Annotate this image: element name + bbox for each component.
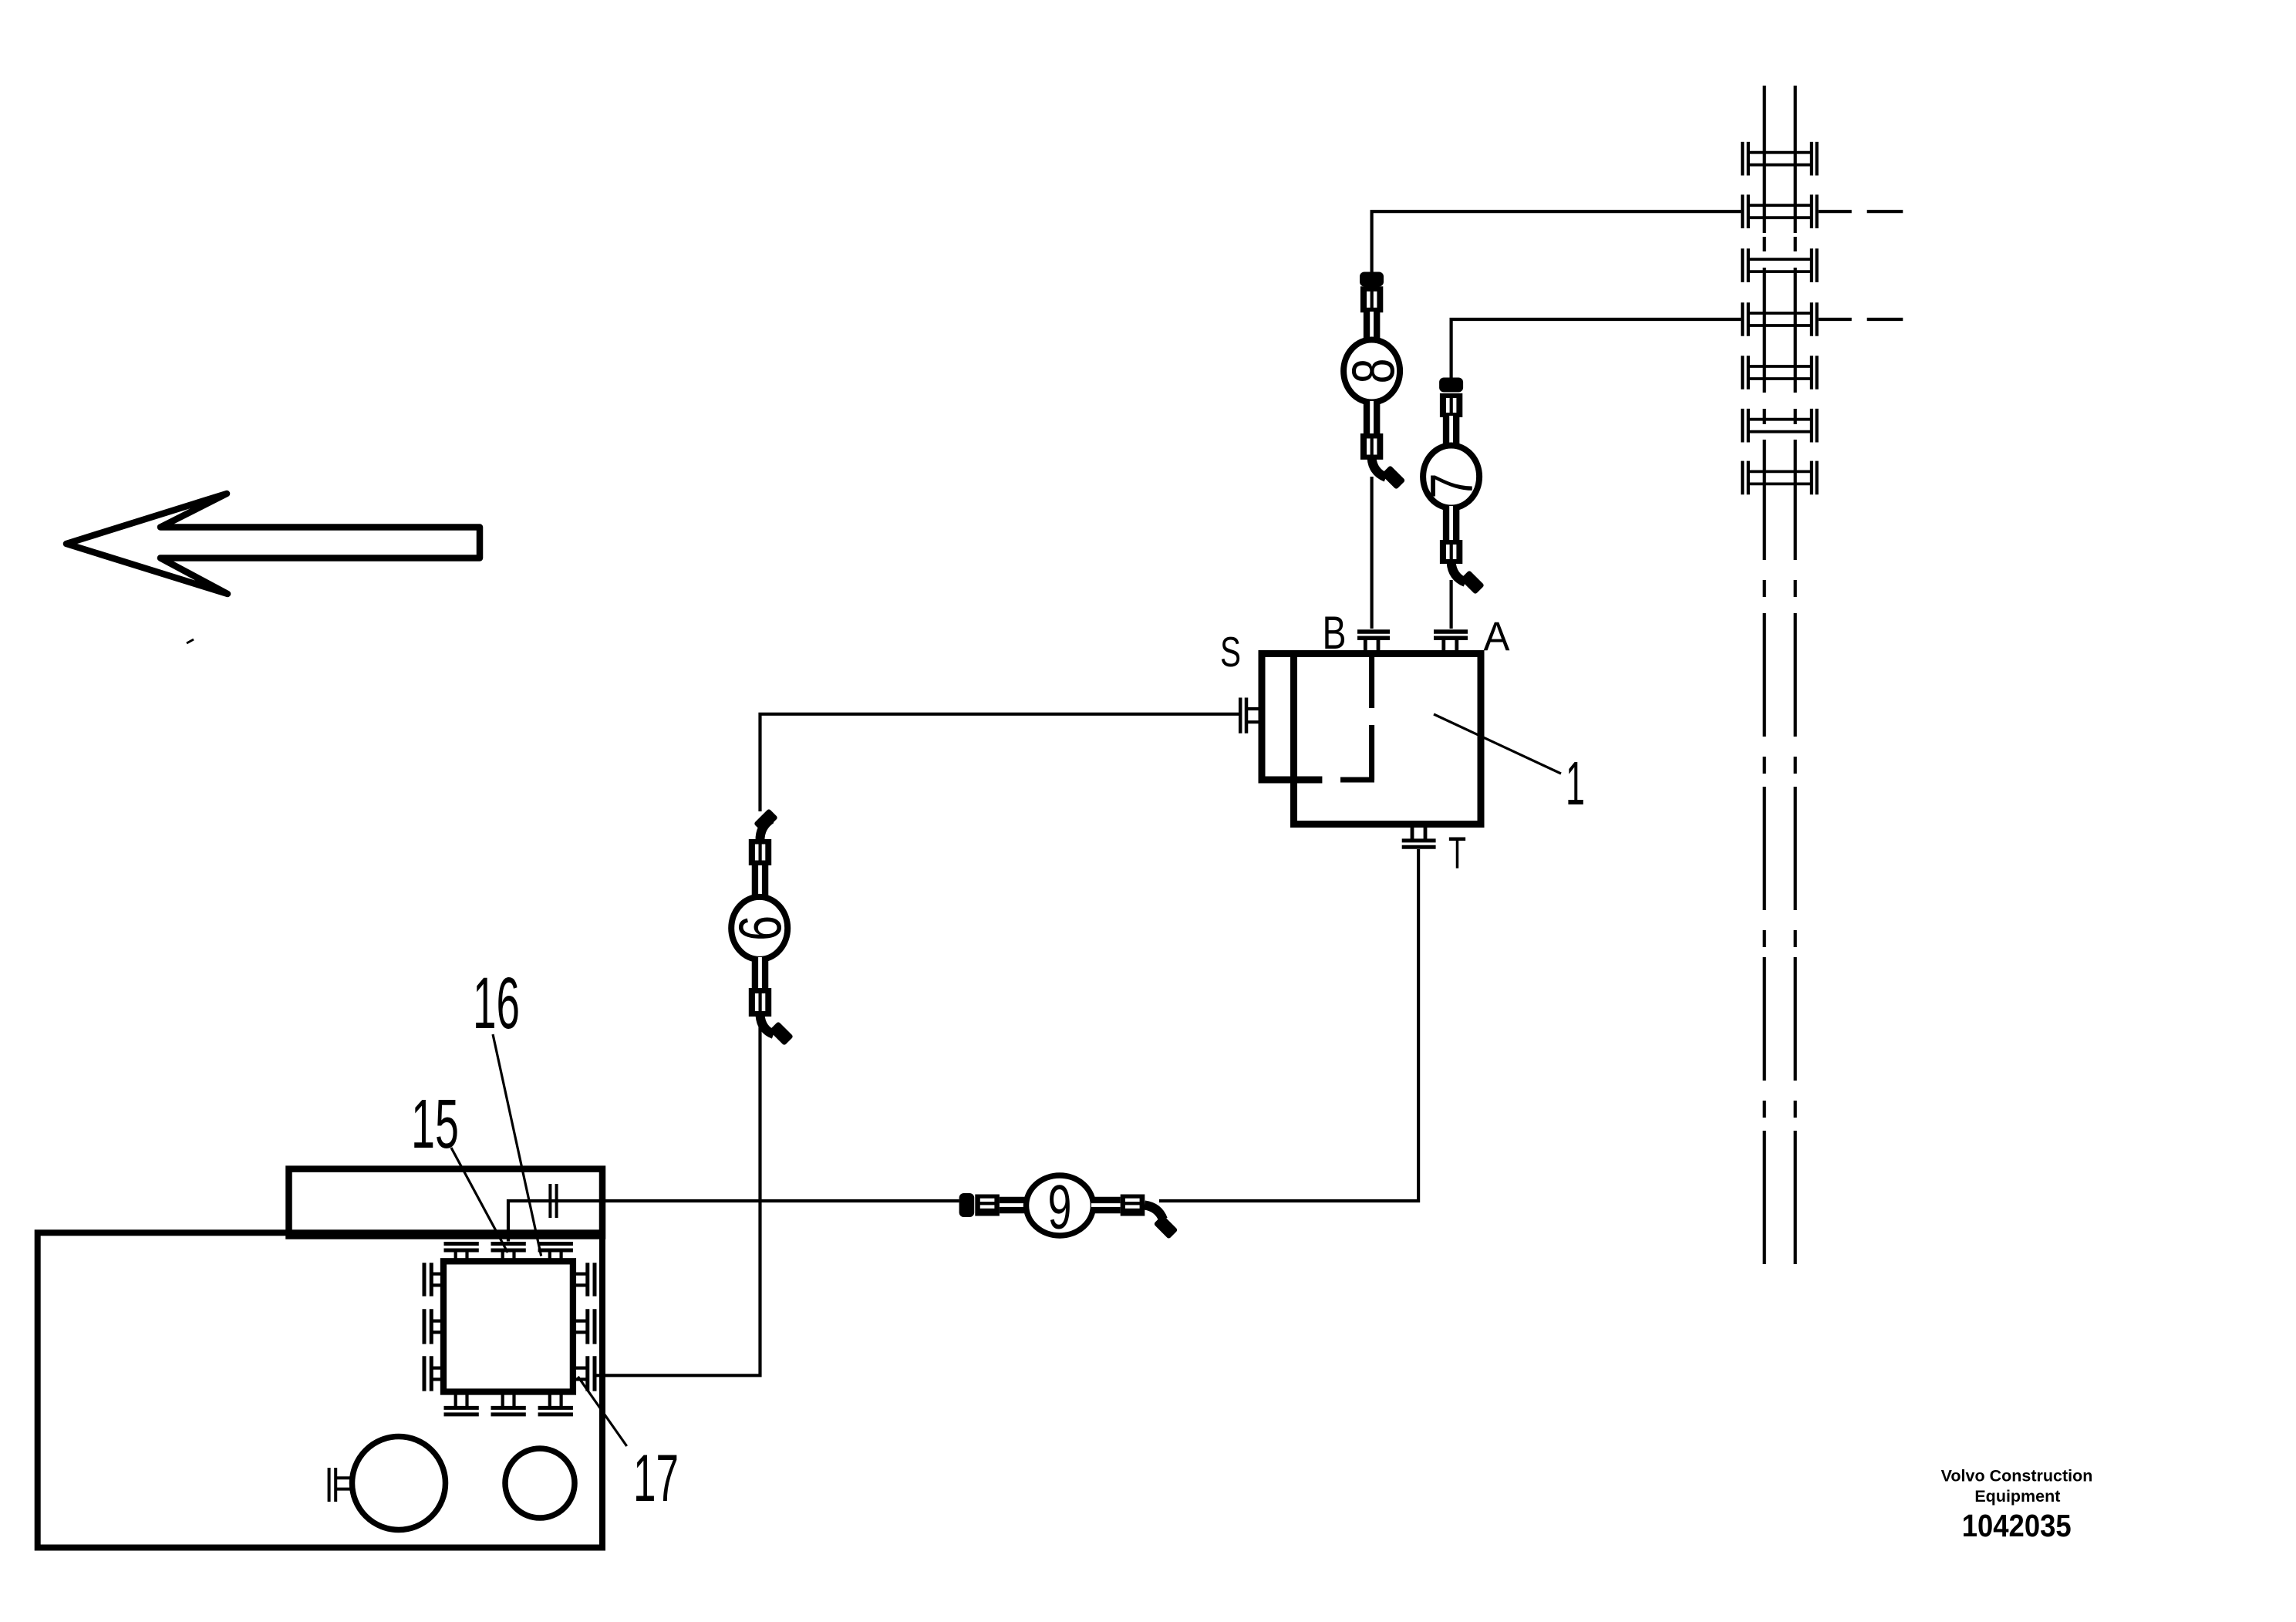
svg-text:T: T (1448, 828, 1466, 878)
svg-text:B: B (1323, 607, 1347, 659)
svg-text:16: 16 (473, 963, 520, 1044)
svg-text:Volvo Construction: Volvo Construction (1941, 1467, 2093, 1485)
svg-text:A: A (1484, 614, 1511, 659)
svg-text:1042035: 1042035 (1962, 1508, 2072, 1543)
svg-text:Equipment: Equipment (1974, 1487, 2060, 1506)
svg-text:17: 17 (633, 1442, 679, 1516)
svg-text:S: S (1220, 628, 1241, 676)
svg-text:1: 1 (1566, 749, 1585, 818)
svg-text:9: 9 (1048, 1173, 1072, 1243)
svg-text:15: 15 (411, 1086, 459, 1163)
svg-text:6: 6 (726, 916, 794, 941)
svg-text:8: 8 (1339, 359, 1407, 384)
svg-text:7: 7 (1418, 474, 1485, 499)
